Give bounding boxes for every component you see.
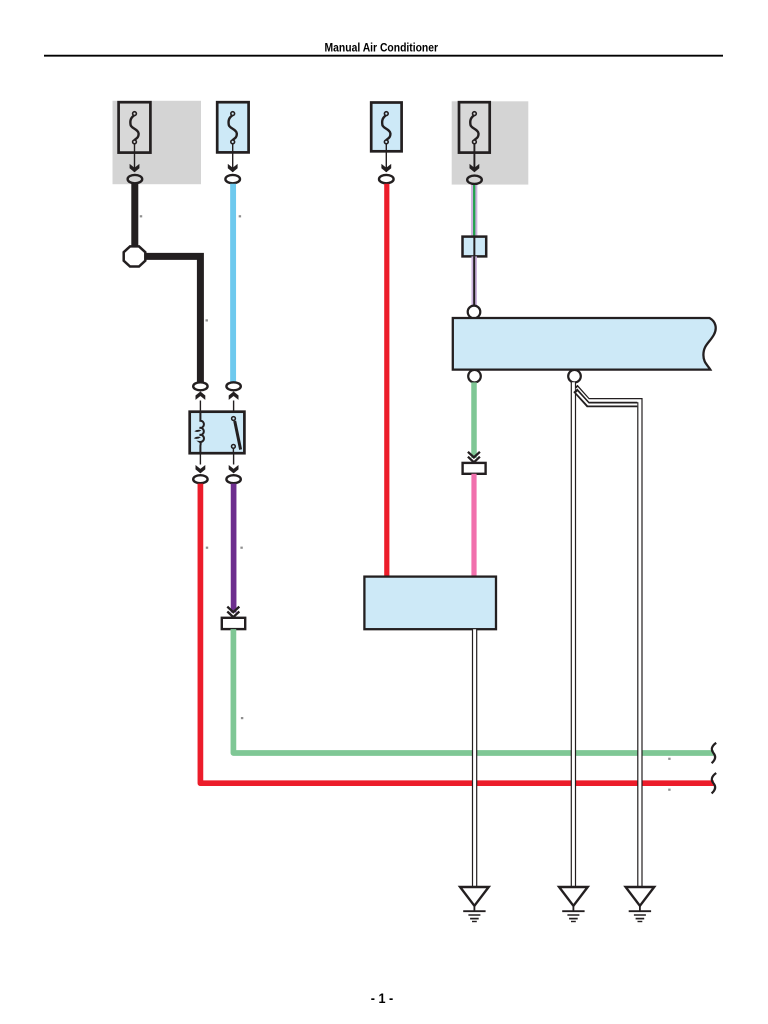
ECU block (torn right edge) bbox=[453, 318, 716, 370]
relay top connector ellipses bbox=[193, 382, 207, 390]
wire: red from relay, down and right to break bbox=[200, 484, 713, 784]
fuse F1 element bbox=[130, 112, 138, 144]
fuse F2 element bbox=[229, 112, 237, 144]
wire: F3 lead to connector bbox=[385, 144, 387, 172]
relay bottom connector ellipses bbox=[193, 475, 207, 483]
relay bottom pin leads bbox=[199, 453, 201, 464]
ground G3 bbox=[626, 887, 655, 922]
wire: white double from ECU pin B to ground G2 bbox=[571, 382, 576, 888]
blower motor box bbox=[364, 577, 496, 630]
svg-text:- 1 -: - 1 - bbox=[371, 991, 394, 1006]
node circle into ECU top bbox=[468, 306, 481, 319]
splice box S1 bbox=[222, 618, 245, 629]
arrow into F4 connector bbox=[470, 165, 479, 172]
header rule bbox=[44, 55, 723, 57]
wire: purple from relay down bbox=[231, 484, 237, 613]
wire: white double branch to ground G3 (lower run) bbox=[575, 390, 637, 404]
fuse F1 box bbox=[119, 102, 151, 152]
junction octagon J1 bbox=[124, 246, 146, 266]
wire: F4 lead to connector bbox=[473, 144, 475, 172]
wire: F1 lead to connector bbox=[134, 144, 136, 172]
relay switch bbox=[232, 417, 236, 421]
wire: F2 lead to connector bbox=[232, 144, 234, 172]
relay R1 box bbox=[190, 412, 245, 454]
wire code mark 6 bbox=[241, 717, 243, 719]
wire: pink from S2 down to blower bbox=[471, 474, 476, 578]
connector ellipse below F4 bbox=[467, 176, 482, 184]
wire: black from octagon right, to corner, down to relay bbox=[145, 256, 201, 382]
wire code mark 1 bbox=[140, 215, 142, 217]
wire code mark 3 bbox=[206, 319, 208, 321]
connector ellipse below F2 bbox=[225, 175, 240, 183]
arrows down into relay bottom connectors bbox=[196, 466, 205, 473]
fuse F3 element bbox=[382, 112, 390, 144]
fuse F4 box bbox=[459, 102, 490, 152]
wire: green on lavender from F4 to connector block bbox=[471, 185, 477, 237]
wire: light-blue from F2 to relay bbox=[230, 184, 236, 382]
relay top pin leads bbox=[199, 401, 201, 412]
connector ellipse below F3 bbox=[379, 175, 394, 183]
fuse F3 box bbox=[371, 103, 401, 152]
svg-text:Manual Air Conditioner: Manual Air Conditioner bbox=[325, 41, 439, 55]
ground G2 bbox=[559, 887, 588, 922]
break symbol red wire bbox=[712, 773, 717, 793]
gray panel behind fuse F1 bbox=[113, 101, 202, 184]
fuse F4 element bbox=[470, 112, 478, 144]
connector ellipse below F1 bbox=[128, 175, 143, 183]
wire: green from S1 down and right to break bbox=[233, 629, 713, 753]
wire: black on lavender from connector block to node bbox=[471, 256, 477, 307]
arrow into F3 connector bbox=[382, 165, 391, 172]
relay coil bbox=[200, 412, 204, 454]
arrows up into relay top connectors bbox=[196, 392, 205, 399]
wire: red from F3 down to blower box bbox=[384, 184, 389, 578]
double chevron into splice S2 bbox=[468, 452, 480, 463]
wire: white double branch to ground G3 (upper run) bbox=[576, 387, 640, 889]
arrow into F2 connector bbox=[228, 165, 237, 172]
splice box S2 bbox=[463, 463, 486, 474]
wire: white double from blower to ground G1 bbox=[472, 629, 477, 888]
gray panel behind fuse F4 bbox=[452, 101, 529, 184]
wire code mark 4 bbox=[206, 547, 208, 549]
arrow into F1 connector bbox=[130, 165, 139, 172]
wire code mark 5 bbox=[240, 547, 242, 549]
wire: green from ECU pin A down bbox=[471, 382, 477, 458]
wire code mark 2 bbox=[239, 215, 241, 217]
break symbol green wire bbox=[712, 743, 717, 763]
wire: black from F1 connector down bbox=[131, 184, 138, 247]
wire code mark 7 bbox=[668, 758, 670, 760]
node circle ECU bottom pin A bbox=[468, 370, 481, 383]
wire code mark 8 bbox=[668, 789, 670, 791]
double chevron into splice S1 bbox=[227, 607, 239, 618]
ground G1 bbox=[460, 887, 489, 922]
node circle ECU bottom pin B bbox=[568, 370, 581, 383]
fuse F2 box bbox=[217, 102, 248, 152]
in-line connector block C1 bbox=[463, 237, 487, 257]
